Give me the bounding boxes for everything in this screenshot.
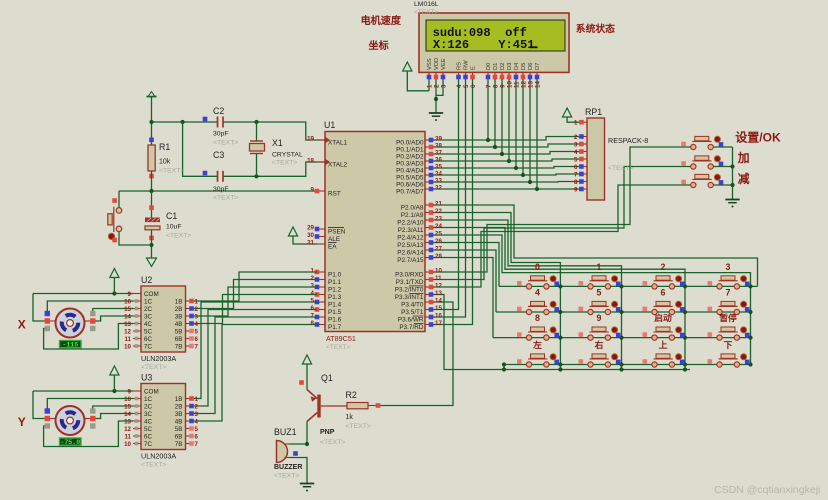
svg-text:2B: 2B xyxy=(175,306,183,313)
svg-text:12: 12 xyxy=(124,328,131,335)
svg-text:26: 26 xyxy=(435,238,442,245)
svg-text:1k: 1k xyxy=(346,414,354,421)
svg-text:5B: 5B xyxy=(175,328,183,335)
svg-text:<TEXT>: <TEXT> xyxy=(141,364,166,371)
svg-text:1: 1 xyxy=(195,298,199,305)
svg-text:C3: C3 xyxy=(213,150,224,160)
svg-text:7B: 7B xyxy=(175,441,183,448)
svg-text:15: 15 xyxy=(435,305,442,312)
svg-text:14: 14 xyxy=(535,81,542,88)
svg-text:5: 5 xyxy=(574,157,578,164)
svg-text:<TEXT>: <TEXT> xyxy=(141,462,166,469)
svg-text:27: 27 xyxy=(435,246,442,253)
svg-text:7: 7 xyxy=(726,287,731,297)
svg-text:2: 2 xyxy=(195,403,199,410)
svg-text:COM: COM xyxy=(144,388,159,395)
svg-text:2C: 2C xyxy=(144,403,153,410)
svg-text:P2.1/A9: P2.1/A9 xyxy=(401,212,424,219)
svg-text:LM016L: LM016L xyxy=(414,1,439,8)
svg-text:Y: Y xyxy=(18,415,26,429)
svg-text:1B: 1B xyxy=(175,396,183,403)
svg-text:右: 右 xyxy=(595,339,604,350)
svg-text:14: 14 xyxy=(124,313,131,320)
svg-text:RP1: RP1 xyxy=(585,107,602,117)
svg-text:4: 4 xyxy=(195,418,199,425)
svg-text:39: 39 xyxy=(435,136,442,143)
svg-text:12: 12 xyxy=(521,81,528,88)
svg-text:P1.3: P1.3 xyxy=(328,294,342,301)
svg-text:暂停: 暂停 xyxy=(719,312,737,323)
svg-text:4: 4 xyxy=(574,149,578,156)
svg-text:下: 下 xyxy=(724,340,733,350)
svg-text:35: 35 xyxy=(435,164,442,171)
svg-text:P2.0/A8: P2.0/A8 xyxy=(401,204,424,211)
svg-text:5: 5 xyxy=(311,298,315,305)
svg-text:3C: 3C xyxy=(144,313,153,320)
svg-text:2: 2 xyxy=(434,84,441,88)
svg-text:1C: 1C xyxy=(144,298,153,305)
svg-text:33: 33 xyxy=(435,178,442,185)
svg-text:13: 13 xyxy=(124,418,131,425)
svg-text:4C: 4C xyxy=(144,321,153,328)
svg-text:VSS: VSS xyxy=(427,58,433,70)
svg-text:5C: 5C xyxy=(144,328,153,335)
svg-text:7C: 7C xyxy=(144,441,153,448)
svg-text:14: 14 xyxy=(435,298,442,305)
svg-text:38: 38 xyxy=(435,143,442,150)
svg-text:3: 3 xyxy=(441,84,448,88)
svg-text:11: 11 xyxy=(514,81,521,88)
svg-text:P1.0: P1.0 xyxy=(328,271,342,278)
svg-text:BUZ1: BUZ1 xyxy=(274,427,297,437)
svg-text:C2: C2 xyxy=(213,106,224,116)
svg-text:RST: RST xyxy=(328,190,341,197)
svg-text:34: 34 xyxy=(435,171,442,178)
svg-text:D3: D3 xyxy=(507,63,513,70)
svg-text:D0: D0 xyxy=(486,63,492,70)
svg-text:P0.2/AD2: P0.2/AD2 xyxy=(396,153,424,160)
svg-text:9: 9 xyxy=(128,291,132,298)
svg-text:7: 7 xyxy=(195,441,199,448)
svg-text:XTAL1: XTAL1 xyxy=(328,139,348,146)
svg-text:31: 31 xyxy=(307,240,314,247)
svg-text:7: 7 xyxy=(195,343,199,350)
svg-text:23: 23 xyxy=(435,216,442,223)
svg-text:<TEXT>: <TEXT> xyxy=(159,168,184,175)
svg-text:30pF: 30pF xyxy=(213,186,229,193)
svg-text:<TEXT>: <TEXT> xyxy=(213,140,238,147)
svg-text:5: 5 xyxy=(195,426,199,433)
svg-text:COM: COM xyxy=(144,291,159,298)
svg-text:P0.3/AD3: P0.3/AD3 xyxy=(396,160,424,167)
svg-text:6: 6 xyxy=(311,305,315,312)
svg-text:P3.1/TXD: P3.1/TXD xyxy=(396,279,424,286)
svg-text:P3.2/INT0: P3.2/INT0 xyxy=(395,286,424,293)
svg-text:P3.7/RD: P3.7/RD xyxy=(399,324,424,331)
svg-text:1: 1 xyxy=(597,262,602,272)
svg-text:11: 11 xyxy=(435,275,442,282)
svg-text:D6: D6 xyxy=(528,63,534,70)
svg-text:E: E xyxy=(471,66,477,70)
svg-text:R2: R2 xyxy=(346,390,357,400)
svg-text:8: 8 xyxy=(493,84,500,88)
svg-text:ULN2003A: ULN2003A xyxy=(141,452,176,461)
svg-text:PSEN: PSEN xyxy=(328,228,346,235)
svg-text:4: 4 xyxy=(195,321,199,328)
svg-text:30pF: 30pF xyxy=(213,131,229,138)
svg-text:PNP: PNP xyxy=(320,429,335,436)
svg-text:5B: 5B xyxy=(175,426,183,433)
svg-text:6: 6 xyxy=(574,164,578,171)
svg-text:X1: X1 xyxy=(272,138,283,148)
svg-text:8: 8 xyxy=(535,313,540,323)
svg-text:P1.6: P1.6 xyxy=(328,316,342,323)
svg-text:1: 1 xyxy=(195,396,199,403)
svg-text:9: 9 xyxy=(128,388,132,395)
svg-text:16: 16 xyxy=(435,313,442,320)
svg-text:<TEXT>: <TEXT> xyxy=(166,233,191,240)
svg-text:19: 19 xyxy=(307,136,314,143)
svg-text:<TEXT>: <TEXT> xyxy=(414,9,438,16)
svg-text:3: 3 xyxy=(195,411,199,418)
svg-text:-75.0: -75.0 xyxy=(60,439,80,446)
svg-text:<TEXT>: <TEXT> xyxy=(326,344,350,351)
svg-text:6: 6 xyxy=(195,336,199,343)
svg-text:P2.6/A14: P2.6/A14 xyxy=(397,249,424,256)
svg-text:6B: 6B xyxy=(175,336,183,343)
svg-text:P0.6/AD6: P0.6/AD6 xyxy=(396,181,424,188)
svg-text:22: 22 xyxy=(435,208,442,215)
svg-text:8: 8 xyxy=(311,320,315,327)
svg-text:设置/OK: 设置/OK xyxy=(735,130,781,145)
svg-text:RS: RS xyxy=(457,62,463,70)
svg-text:4: 4 xyxy=(456,84,463,88)
svg-text:25: 25 xyxy=(435,231,442,238)
svg-text:16: 16 xyxy=(124,298,131,305)
svg-text:5: 5 xyxy=(597,287,602,297)
svg-text:P1.2: P1.2 xyxy=(328,286,342,293)
svg-text:上: 上 xyxy=(659,339,668,350)
svg-text:11: 11 xyxy=(124,336,131,343)
svg-text:1B: 1B xyxy=(175,298,183,305)
svg-text:X: X xyxy=(18,318,26,332)
svg-text:3: 3 xyxy=(311,283,315,290)
svg-text:P0.7/AD7: P0.7/AD7 xyxy=(396,188,424,195)
svg-text:9: 9 xyxy=(574,187,578,194)
svg-text:9: 9 xyxy=(597,313,602,323)
svg-text:21: 21 xyxy=(435,201,442,208)
svg-text:BUZZER: BUZZER xyxy=(274,464,302,471)
svg-text:<TEXT>: <TEXT> xyxy=(272,160,297,167)
svg-text:P2.2/A10: P2.2/A10 xyxy=(397,219,424,226)
svg-text:D4: D4 xyxy=(514,62,520,70)
svg-text:5C: 5C xyxy=(144,426,153,433)
svg-text:<TEXT>: <TEXT> xyxy=(274,473,299,480)
svg-text:3: 3 xyxy=(726,262,731,272)
svg-text:3B: 3B xyxy=(175,411,183,418)
svg-text:4C: 4C xyxy=(144,418,153,425)
svg-text:X:126 Y:451: X:126 Y:451 xyxy=(433,38,535,52)
svg-text:8: 8 xyxy=(574,179,578,186)
svg-text:0: 0 xyxy=(535,262,540,272)
svg-text:RW: RW xyxy=(464,60,470,70)
svg-text:3B: 3B xyxy=(175,313,183,320)
svg-text:P1.1: P1.1 xyxy=(328,279,342,286)
svg-text:4: 4 xyxy=(535,287,540,297)
svg-text:XTAL2: XTAL2 xyxy=(328,161,348,168)
svg-text:6C: 6C xyxy=(144,433,153,440)
svg-text:P3.3/INT1: P3.3/INT1 xyxy=(395,294,424,301)
svg-text:P3.6/WR: P3.6/WR xyxy=(398,316,424,323)
svg-text:2C: 2C xyxy=(144,306,153,313)
svg-text:4B: 4B xyxy=(175,321,183,328)
svg-text:15: 15 xyxy=(124,403,131,410)
svg-text:4: 4 xyxy=(311,290,315,297)
svg-text:13: 13 xyxy=(435,290,442,297)
svg-text:3C: 3C xyxy=(144,411,153,418)
svg-text:D7: D7 xyxy=(535,63,541,70)
svg-text:28: 28 xyxy=(435,253,442,260)
svg-text:2: 2 xyxy=(195,306,199,313)
svg-text:U1: U1 xyxy=(324,120,335,130)
svg-text:P2.4/A12: P2.4/A12 xyxy=(397,234,424,241)
svg-text:<TEXT>: <TEXT> xyxy=(213,195,238,202)
svg-text:<TEXT>: <TEXT> xyxy=(320,439,345,446)
svg-text:13: 13 xyxy=(528,81,535,88)
svg-text:29: 29 xyxy=(307,225,314,232)
svg-text:2B: 2B xyxy=(175,403,183,410)
svg-text:4B: 4B xyxy=(175,418,183,425)
svg-text:6: 6 xyxy=(195,433,199,440)
svg-text:12: 12 xyxy=(435,283,442,290)
svg-text:6C: 6C xyxy=(144,336,153,343)
svg-text:7C: 7C xyxy=(144,343,153,350)
svg-text:AT89C51: AT89C51 xyxy=(326,334,356,343)
svg-text:36: 36 xyxy=(435,157,442,164)
svg-text:5: 5 xyxy=(195,328,199,335)
svg-text:11: 11 xyxy=(124,433,131,440)
svg-text:P2.7/A15: P2.7/A15 xyxy=(397,257,424,264)
svg-text:7: 7 xyxy=(486,84,493,88)
svg-text:左: 左 xyxy=(532,339,542,350)
svg-text:14: 14 xyxy=(124,411,131,418)
svg-text:6: 6 xyxy=(470,84,477,88)
svg-text:P3.4/T0: P3.4/T0 xyxy=(401,301,424,308)
svg-text:10: 10 xyxy=(507,81,514,88)
svg-text:P1.4: P1.4 xyxy=(328,301,342,308)
svg-text:32: 32 xyxy=(435,185,442,192)
svg-text:P0.4/AD4: P0.4/AD4 xyxy=(396,167,424,174)
svg-text:5: 5 xyxy=(463,84,470,88)
svg-text:ULN2003A: ULN2003A xyxy=(141,354,176,363)
svg-text:7B: 7B xyxy=(175,343,183,350)
svg-text:减: 减 xyxy=(738,172,750,186)
svg-text:15: 15 xyxy=(124,306,131,313)
svg-text:7: 7 xyxy=(311,313,315,320)
svg-text:P3.0/RXD: P3.0/RXD xyxy=(395,271,424,278)
svg-text:EA: EA xyxy=(328,243,337,250)
svg-text:P0.5/AD5: P0.5/AD5 xyxy=(396,174,424,181)
svg-text:2: 2 xyxy=(574,134,578,141)
svg-text:P0.1/AD1: P0.1/AD1 xyxy=(396,146,424,153)
svg-text:18: 18 xyxy=(307,158,314,165)
svg-text:R1: R1 xyxy=(159,142,170,152)
svg-text:37: 37 xyxy=(435,150,442,157)
svg-text:电机速度: 电机速度 xyxy=(361,14,402,27)
svg-text:16: 16 xyxy=(124,396,131,403)
svg-text:7: 7 xyxy=(574,172,578,179)
svg-text:9: 9 xyxy=(311,187,315,194)
svg-text:CRYSTAL: CRYSTAL xyxy=(272,152,303,159)
svg-text:CSDN @cqtianxingkeji: CSDN @cqtianxingkeji xyxy=(714,484,820,496)
svg-text:2: 2 xyxy=(661,262,666,272)
svg-text:P2.5/A13: P2.5/A13 xyxy=(397,242,424,249)
svg-text:6: 6 xyxy=(661,287,666,297)
svg-text:D5: D5 xyxy=(521,63,527,70)
svg-text:坐标: 坐标 xyxy=(369,39,389,52)
svg-text:<TEXT>: <TEXT> xyxy=(608,165,633,172)
svg-text:D2: D2 xyxy=(500,63,506,70)
svg-text:1C: 1C xyxy=(144,396,153,403)
svg-text:U3: U3 xyxy=(141,373,152,383)
svg-text:启动: 启动 xyxy=(654,312,672,323)
svg-text:10k: 10k xyxy=(159,159,171,166)
svg-text:P3.5/T1: P3.5/T1 xyxy=(401,309,424,316)
svg-text:9: 9 xyxy=(500,84,507,88)
svg-text:12: 12 xyxy=(124,426,131,433)
svg-text:加: 加 xyxy=(737,151,750,165)
svg-text:2: 2 xyxy=(311,275,315,282)
svg-text:24: 24 xyxy=(435,223,442,230)
svg-text:P1.5: P1.5 xyxy=(328,309,342,316)
svg-text:1: 1 xyxy=(311,268,315,275)
svg-text:10uF: 10uF xyxy=(166,224,182,231)
svg-text:P1.7: P1.7 xyxy=(328,324,342,331)
svg-text:3: 3 xyxy=(574,142,578,149)
svg-text:10: 10 xyxy=(435,268,442,275)
svg-text:C1: C1 xyxy=(166,211,177,221)
svg-text:VEE: VEE xyxy=(441,58,447,70)
svg-text:系统状态: 系统状态 xyxy=(576,22,615,35)
svg-text:VDD: VDD xyxy=(434,58,440,70)
svg-text:30: 30 xyxy=(307,232,314,239)
svg-text:P0.0/AD0: P0.0/AD0 xyxy=(396,139,424,146)
svg-text:Q1: Q1 xyxy=(321,373,333,383)
svg-text:1: 1 xyxy=(427,84,434,88)
svg-text:<TEXT>: <TEXT> xyxy=(346,423,371,430)
svg-text:-115: -115 xyxy=(62,342,78,349)
svg-text:ALE: ALE xyxy=(328,236,340,243)
svg-text:13: 13 xyxy=(124,321,131,328)
svg-text:D1: D1 xyxy=(493,63,499,70)
svg-text:1: 1 xyxy=(574,120,578,127)
svg-text:3: 3 xyxy=(195,313,199,320)
svg-text:17: 17 xyxy=(435,320,442,327)
svg-text:10: 10 xyxy=(124,343,131,350)
svg-text:P2.3/A11: P2.3/A11 xyxy=(398,227,424,234)
svg-text:10: 10 xyxy=(124,441,131,448)
svg-text:RESPACK-8: RESPACK-8 xyxy=(608,136,648,145)
svg-text:U2: U2 xyxy=(141,275,152,285)
svg-text:6B: 6B xyxy=(175,433,183,440)
